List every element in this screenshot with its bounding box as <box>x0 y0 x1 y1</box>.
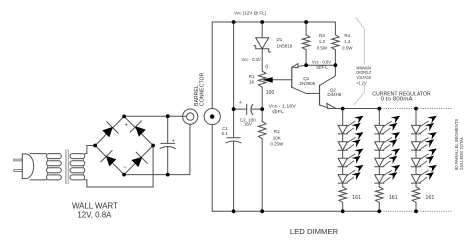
svg-text:+: + <box>172 138 175 144</box>
svg-text:2N3906: 2N3906 <box>299 81 315 86</box>
svg-text:1K: 1K <box>249 79 255 84</box>
svg-text:R3: R3 <box>319 33 325 38</box>
svg-text:R2: R2 <box>274 129 280 134</box>
svg-text:1.2: 1.2 <box>344 39 351 44</box>
svg-text:D44H8: D44H8 <box>327 92 342 97</box>
svg-text:−: − <box>123 165 127 171</box>
svg-text:161: 161 <box>425 195 434 201</box>
svg-text:0 to 800mA: 0 to 800mA <box>381 97 413 103</box>
svg-text:+: + <box>125 123 129 129</box>
svg-text:0.25W: 0.25W <box>270 141 284 146</box>
svg-text:12V, 0.8A: 12V, 0.8A <box>77 210 112 219</box>
svg-text:100: 100 <box>266 90 275 96</box>
svg-text:C1: C1 <box>222 126 228 131</box>
svg-text:Vcc - 1.18V: Vcc - 1.18V <box>269 104 296 109</box>
svg-text:Vcc - 0.3V: Vcc - 0.3V <box>241 57 261 62</box>
svg-text:D1: D1 <box>277 37 283 42</box>
svg-text:16V: 16V <box>244 122 252 127</box>
svg-text:VOLTAGE: VOLTAGE <box>356 75 371 80</box>
svg-text:1.2: 1.2 <box>319 39 326 44</box>
svg-text:240 LEDS TOTAL: 240 LEDS TOTAL <box>459 136 464 170</box>
svg-text:CONNECTOR: CONNECTOR <box>199 72 205 106</box>
svg-text:0.5W: 0.5W <box>342 46 353 51</box>
svg-text:0: 0 <box>265 65 268 71</box>
svg-text:@FL: @FL <box>316 65 329 70</box>
svg-text:≈1.2V: ≈1.2V <box>356 80 366 85</box>
svg-text:161: 161 <box>389 195 398 201</box>
svg-text:R4: R4 <box>344 33 350 38</box>
svg-text:+: + <box>239 100 242 106</box>
svg-text:WALL WART: WALL WART <box>72 202 118 211</box>
svg-text:0.5W: 0.5W <box>317 46 328 51</box>
svg-text:@FL: @FL <box>272 109 285 114</box>
svg-text:0.1: 0.1 <box>222 131 229 136</box>
svg-text:10K: 10K <box>273 136 281 141</box>
svg-text:161: 161 <box>352 195 361 201</box>
svg-text:1N5819: 1N5819 <box>277 43 293 48</box>
svg-text:Vcc (12V @ FL): Vcc (12V @ FL) <box>234 11 267 16</box>
svg-text:R1: R1 <box>249 74 255 79</box>
svg-text:LED DIMMER: LED DIMMER <box>290 227 339 236</box>
